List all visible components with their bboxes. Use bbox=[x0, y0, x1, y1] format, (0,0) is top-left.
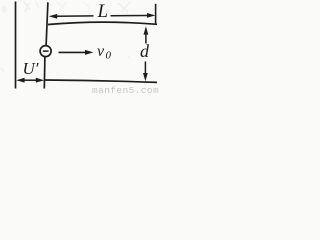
left electrode plate bbox=[15, 2, 17, 89]
svg-text:v: v bbox=[97, 43, 105, 60]
svg-text:0: 0 bbox=[106, 50, 112, 62]
L dimension right shaft bbox=[111, 15, 150, 17]
v0 velocity arrow bbox=[59, 51, 88, 53]
L dimension left arrowhead bbox=[49, 14, 57, 19]
svg-text:manfen5.com: manfen5.com bbox=[92, 85, 159, 94]
scan smudge top-left bbox=[1, 1, 131, 72]
top capacitor plate bbox=[48, 22, 157, 24]
negative charge circle bbox=[40, 46, 51, 57]
right electrode plate (upper segment) bbox=[46, 2, 48, 45]
L dimension right arrowhead bbox=[147, 13, 155, 18]
U' dimension double arrow bbox=[16, 78, 24, 83]
svg-text:d: d bbox=[140, 41, 150, 61]
d dimension lower arrow (points down) bbox=[144, 62, 146, 76]
right end tick bbox=[155, 4, 157, 24]
d dimension upper arrow (points up) bbox=[144, 26, 149, 34]
L dimension left shaft bbox=[55, 15, 94, 17]
paper background bbox=[0, 0, 162, 94]
svg-text:U′: U′ bbox=[23, 59, 39, 78]
minus sign bbox=[43, 50, 49, 52]
right electrode plate (lower segment) bbox=[43, 57, 46, 89]
svg-text:L: L bbox=[97, 1, 109, 22]
bottom capacitor plate bbox=[44, 80, 157, 82]
